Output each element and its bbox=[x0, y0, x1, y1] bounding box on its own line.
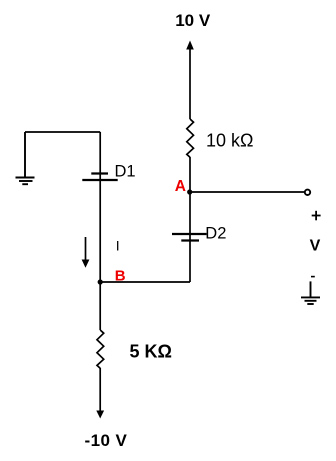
svg-text:V: V bbox=[310, 238, 321, 255]
svg-text:I: I bbox=[116, 237, 120, 253]
- polarity label bbox=[311, 276, 315, 278]
wire diode D2 to corner above node B bbox=[189, 234, 191, 282]
output terminal open circle bbox=[305, 190, 310, 195]
svg-text:-10 V: -10 V bbox=[84, 431, 127, 450]
svg-text:10 V: 10 V bbox=[175, 11, 211, 30]
ground at output (right) bbox=[301, 281, 320, 304]
resistor R2 bbox=[97, 330, 104, 368]
ground top-left bbox=[16, 132, 35, 184]
+ polarity label bbox=[312, 211, 321, 221]
node A junction dot bbox=[187, 189, 192, 194]
wire resistor R1 to diode D2 through node A bbox=[189, 157, 191, 234]
wire node A to output terminal bbox=[190, 191, 304, 193]
node B junction dot bbox=[98, 279, 103, 284]
wire top to diode D1 bbox=[99, 132, 101, 180]
svg-text:B: B bbox=[115, 268, 126, 285]
svg-text:D2: D2 bbox=[205, 224, 226, 242]
svg-text:D1: D1 bbox=[115, 163, 136, 181]
wire node B to resistor R2 bbox=[99, 282, 101, 330]
svg-text:A: A bbox=[175, 178, 186, 195]
wire resistor R2 to -10 V arrow bbox=[99, 368, 101, 412]
current arrow I bbox=[82, 237, 90, 268]
diode D1 (battery-style symbol) bbox=[82, 174, 117, 181]
wire diode D1 to node B bbox=[99, 180, 101, 282]
svg-text:5 KΩ: 5 KΩ bbox=[130, 341, 172, 361]
wire node B to diode D2 branch bbox=[100, 281, 190, 283]
resistor R1 bbox=[187, 119, 194, 157]
-10 V supply arrow bbox=[96, 411, 104, 419]
wire left ground to diode D1 branch bbox=[25, 131, 100, 133]
diode D2 (battery-style symbol) bbox=[172, 234, 207, 241]
svg-text:10 kΩ: 10 kΩ bbox=[206, 131, 253, 151]
+10 V supply arrow bbox=[186, 41, 194, 120]
